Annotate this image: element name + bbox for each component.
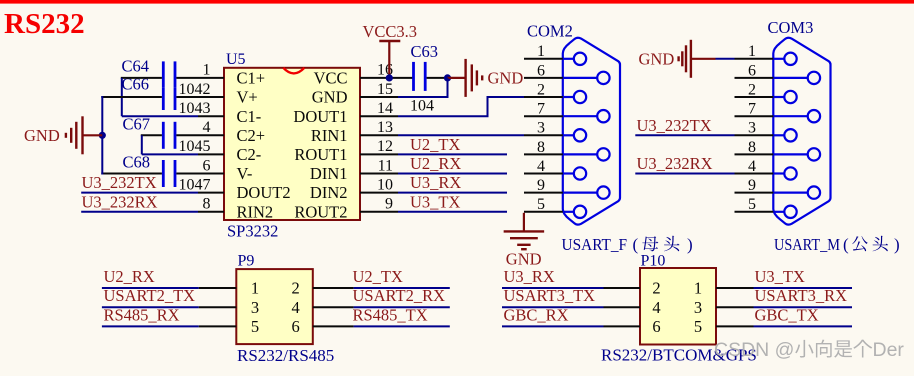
wire RIN1 to COM2 pin3 bbox=[398, 134, 524, 136]
svg-text:C2+: C2+ bbox=[237, 126, 266, 145]
wire net GBC_RX bbox=[502, 325, 604, 327]
COM3 pin 5 contact bbox=[773, 206, 796, 218]
connector COM3 body bbox=[773, 38, 830, 225]
pin stub pin3 bbox=[198, 115, 224, 117]
wire U3_232RX to COM3 pin4 bbox=[635, 173, 734, 175]
svg-text:3: 3 bbox=[251, 298, 259, 317]
svg-text:2: 2 bbox=[748, 81, 756, 98]
COM3 pin stub 5 bbox=[735, 211, 774, 213]
wire GND rail to C68 left plate bbox=[101, 173, 162, 175]
COM2 pin 2 contact bbox=[563, 91, 586, 103]
svg-text:U2_TX: U2_TX bbox=[410, 135, 460, 154]
P10 right pin stub row 2 bbox=[716, 306, 754, 308]
svg-text:5: 5 bbox=[748, 196, 756, 213]
capacitor C68 bbox=[163, 160, 175, 187]
svg-text:VCC: VCC bbox=[314, 69, 348, 88]
pin stub U5 pin15 bbox=[360, 96, 398, 98]
wire net U3_TX bbox=[754, 287, 853, 289]
svg-text:7: 7 bbox=[748, 101, 756, 118]
wire net RS485_TX bbox=[354, 325, 450, 327]
svg-text:9: 9 bbox=[537, 177, 545, 194]
wire C67 right plate to chip pin4 bbox=[176, 134, 224, 136]
COM3 pin 2 contact bbox=[773, 91, 796, 103]
svg-text:3: 3 bbox=[537, 120, 545, 137]
svg-text:ROUT2: ROUT2 bbox=[294, 202, 347, 221]
svg-text:104: 104 bbox=[410, 98, 434, 115]
COM2 pin stub 8 bbox=[524, 153, 563, 155]
wire net U3_TX bbox=[398, 211, 507, 213]
svg-text:1042: 1042 bbox=[179, 81, 211, 98]
svg-text:4: 4 bbox=[748, 158, 756, 175]
COM3 pin 1 contact bbox=[773, 53, 796, 65]
COM3 pin 8 contact bbox=[773, 148, 820, 160]
COM2 pin 9 contact bbox=[563, 186, 610, 198]
svg-text:6: 6 bbox=[748, 62, 756, 79]
pin stub U5 pin12 bbox=[360, 153, 398, 155]
ground symbol COM3 pin1 bbox=[679, 40, 735, 78]
COM2 pin stub 6 bbox=[524, 77, 563, 79]
svg-text:(: ( bbox=[843, 235, 849, 254]
svg-text:SP3232: SP3232 bbox=[227, 222, 278, 241]
svg-text:GBC_RX: GBC_RX bbox=[504, 305, 569, 324]
svg-text:U3_TX: U3_TX bbox=[755, 267, 805, 286]
svg-text:9: 9 bbox=[748, 177, 756, 194]
COM2 pin stub 4 bbox=[524, 173, 563, 175]
svg-text:12: 12 bbox=[377, 138, 393, 155]
svg-text:U2_TX: U2_TX bbox=[353, 267, 403, 286]
svg-text:4: 4 bbox=[203, 119, 211, 136]
svg-text:ROUT1: ROUT1 bbox=[294, 145, 347, 164]
svg-text:4: 4 bbox=[652, 298, 660, 317]
svg-text:(: ( bbox=[633, 235, 639, 254]
svg-text:5: 5 bbox=[251, 317, 259, 336]
COM3 pin 9 contact bbox=[773, 186, 820, 198]
COM3 pin stub 4 bbox=[735, 173, 774, 175]
svg-text:U3_RX: U3_RX bbox=[504, 267, 555, 286]
watermark CSDN bbox=[714, 339, 904, 361]
svg-text:U5: U5 bbox=[226, 51, 246, 68]
svg-text:VCC3.3: VCC3.3 bbox=[363, 22, 418, 41]
pin stub U5 pin10 bbox=[360, 192, 398, 194]
svg-text:COM2: COM2 bbox=[527, 22, 573, 41]
svg-text:1: 1 bbox=[748, 43, 756, 60]
P10 left pin stub row 1 bbox=[604, 287, 641, 289]
wire junction to ground bbox=[448, 77, 465, 79]
svg-text:1043: 1043 bbox=[179, 100, 211, 117]
svg-text:U3_232TX: U3_232TX bbox=[637, 116, 712, 135]
svg-text:GBC_TX: GBC_TX bbox=[755, 305, 819, 324]
COM2 pin 4 contact bbox=[563, 167, 586, 179]
svg-text:V-: V- bbox=[237, 164, 253, 183]
COM2 pin 1 contact bbox=[563, 53, 586, 65]
svg-text:RIN1: RIN1 bbox=[311, 126, 348, 145]
COM2 pin 5 contact bbox=[563, 206, 586, 218]
svg-text:C1+: C1+ bbox=[237, 69, 266, 88]
wire pin15 to junction bbox=[398, 78, 448, 97]
wire C1- row to chip pin3 bbox=[122, 115, 198, 117]
svg-text:USART_F: USART_F bbox=[562, 235, 628, 254]
svg-text:DOUT2: DOUT2 bbox=[237, 183, 291, 202]
svg-text:COM3: COM3 bbox=[768, 18, 814, 37]
svg-text:RS485_TX: RS485_TX bbox=[353, 305, 428, 324]
pin stub pin8 bbox=[198, 211, 224, 213]
svg-text:): ) bbox=[894, 235, 900, 254]
svg-text:P9: P9 bbox=[238, 253, 255, 270]
COM2 pin stub 1 bbox=[524, 58, 563, 60]
connector COM2 body bbox=[563, 38, 620, 225]
svg-text:1: 1 bbox=[251, 279, 259, 298]
capacitor C67 bbox=[163, 122, 175, 149]
P9 right pin stub row 2 bbox=[313, 306, 354, 308]
svg-text:2: 2 bbox=[291, 279, 299, 298]
svg-text:U2_RX: U2_RX bbox=[104, 267, 155, 286]
svg-text:DOUT1: DOUT1 bbox=[293, 107, 347, 126]
COM2 pin 8 contact bbox=[563, 148, 610, 160]
svg-text:USART2_TX: USART2_TX bbox=[104, 286, 196, 305]
P9 right pin stub row 3 bbox=[313, 325, 354, 327]
svg-text:GND: GND bbox=[24, 126, 60, 145]
svg-text:GND: GND bbox=[506, 250, 542, 269]
capacitor C66 bbox=[163, 88, 175, 111]
pin stub pin5 bbox=[198, 153, 224, 155]
svg-text:3: 3 bbox=[694, 298, 702, 317]
COM2 pin 7 contact bbox=[563, 110, 610, 122]
wire vertical C64 to C1- row bbox=[121, 78, 123, 116]
wire net USART2_RX bbox=[354, 306, 450, 308]
svg-text:C64: C64 bbox=[122, 56, 150, 75]
COM2 pin stub 2 bbox=[524, 96, 563, 98]
COM2 pin stub 9 bbox=[524, 192, 563, 194]
connector P10 body bbox=[640, 268, 716, 345]
svg-text:C2-: C2- bbox=[237, 145, 262, 164]
svg-text:DIN1: DIN1 bbox=[310, 164, 348, 183]
svg-text:Der: Der bbox=[873, 339, 905, 361]
wire GND rail to C66 left plate bbox=[101, 96, 162, 98]
wire net U2_TX bbox=[398, 153, 507, 155]
ground symbol left bbox=[66, 116, 102, 154]
junction GND rail bbox=[99, 132, 106, 139]
svg-text:8: 8 bbox=[537, 139, 545, 156]
svg-text:5: 5 bbox=[537, 196, 545, 213]
wire net RS485_RX bbox=[102, 325, 199, 327]
junction VCC pin16 bbox=[386, 74, 393, 81]
pin stub pin7 bbox=[198, 192, 224, 194]
svg-text:10: 10 bbox=[377, 176, 393, 193]
value USART_M(公头) bbox=[774, 235, 900, 254]
COM2 pin stub 5 bbox=[524, 211, 563, 213]
wire C63 to GND junction bbox=[427, 77, 448, 79]
P10 left pin stub row 2 bbox=[604, 306, 641, 308]
svg-text:U3_TX: U3_TX bbox=[410, 192, 460, 211]
svg-text:6: 6 bbox=[537, 62, 545, 79]
svg-text:DIN2: DIN2 bbox=[310, 183, 348, 202]
svg-text:RS232/RS485: RS232/RS485 bbox=[237, 346, 334, 365]
wire DOUT1 to COM2 pin2 bbox=[398, 97, 524, 116]
COM3 pin 4 contact bbox=[773, 167, 796, 179]
wire C68 right plate to chip pin6 bbox=[176, 173, 224, 175]
capacitor C64 bbox=[163, 61, 175, 87]
COM2 pin 6 contact bbox=[563, 72, 610, 84]
COM3 pin stub 2 bbox=[735, 96, 774, 98]
wire net USART3_TX bbox=[502, 306, 604, 308]
P10 right pin stub row 1 bbox=[716, 287, 754, 289]
P9 left pin stub row 2 bbox=[199, 306, 237, 308]
capacitor C63 bbox=[414, 62, 426, 91]
svg-text:2: 2 bbox=[537, 81, 545, 98]
wire net U2_RX bbox=[102, 287, 199, 289]
wire C2- row to pin stub bbox=[142, 153, 198, 155]
svg-text:USART3_TX: USART3_TX bbox=[504, 286, 596, 305]
svg-text:C63: C63 bbox=[411, 42, 439, 61]
wire net U3_RX bbox=[398, 192, 507, 194]
wire net U2_RX bbox=[398, 173, 507, 175]
wire net U3_RX bbox=[502, 287, 604, 289]
svg-text:9: 9 bbox=[385, 196, 393, 213]
COM3 pin 3 contact bbox=[773, 129, 796, 141]
P10 right pin stub row 3 bbox=[716, 325, 754, 327]
wire C64 left plate to corner bbox=[121, 77, 162, 79]
svg-text:U3_232RX: U3_232RX bbox=[82, 192, 158, 211]
svg-text:USART3_RX: USART3_RX bbox=[755, 286, 848, 305]
svg-text:1: 1 bbox=[537, 43, 545, 60]
svg-text:U2_RX: U2_RX bbox=[410, 154, 461, 173]
svg-text:13: 13 bbox=[377, 119, 393, 136]
COM2 pin stub 3 bbox=[524, 134, 563, 136]
connector P9 body bbox=[236, 269, 312, 344]
svg-text:15: 15 bbox=[377, 81, 393, 98]
junction C63/GND bbox=[444, 74, 451, 81]
svg-text:USART2_RX: USART2_RX bbox=[353, 286, 446, 305]
svg-text:1045: 1045 bbox=[179, 138, 211, 155]
wire C66 right plate to chip pin2 bbox=[176, 96, 224, 98]
P9 left pin stub row 3 bbox=[199, 325, 237, 327]
pin stub U5 pin11 bbox=[360, 173, 398, 175]
COM3 pin stub 8 bbox=[735, 153, 774, 155]
IC U5 body (SP3232) bbox=[224, 68, 360, 220]
svg-text:5: 5 bbox=[694, 317, 702, 336]
wire net GBC_TX bbox=[754, 325, 853, 327]
COM3 pin 6 contact bbox=[773, 72, 820, 84]
svg-text:): ) bbox=[687, 235, 693, 254]
wire pin16 to C63 bbox=[360, 77, 413, 79]
svg-text:4: 4 bbox=[537, 158, 545, 175]
svg-text:6: 6 bbox=[291, 317, 299, 336]
value USART_F(母头) bbox=[562, 235, 693, 254]
ground symbol below COM2 bbox=[504, 231, 545, 249]
wire corner to C67 left plate bbox=[141, 134, 162, 136]
COM2 pin 3 contact bbox=[563, 129, 586, 141]
wire pin1 to C64 right plate bbox=[176, 77, 224, 79]
COM3 pin stub 9 bbox=[735, 192, 774, 194]
wire net U2_TX bbox=[354, 287, 450, 289]
svg-text:GND: GND bbox=[312, 88, 348, 107]
svg-text:14: 14 bbox=[377, 100, 393, 117]
svg-text:3: 3 bbox=[748, 120, 756, 137]
COM2 pin stub 7 bbox=[524, 115, 563, 117]
P9 left pin stub row 1 bbox=[199, 287, 237, 289]
svg-text:GND: GND bbox=[639, 49, 675, 68]
svg-text:RIN2: RIN2 bbox=[237, 202, 274, 221]
wire vertical C67 to C2- row bbox=[141, 135, 143, 154]
wire U3_232TX to COM3 pin3 bbox=[635, 134, 734, 136]
svg-text:U3_232TX: U3_232TX bbox=[82, 173, 157, 192]
top red border bar bbox=[0, 0, 914, 4]
COM3 pin stub 7 bbox=[735, 115, 774, 117]
svg-text:V+: V+ bbox=[237, 88, 258, 107]
wire COM2 pin5 to ground bbox=[523, 213, 525, 231]
pin stub U5 pin13 bbox=[360, 134, 398, 136]
svg-text:CSDN @: CSDN @ bbox=[714, 339, 794, 361]
pin stub U5 pin14 bbox=[360, 115, 398, 117]
GND vertical rail bbox=[101, 96, 103, 175]
COM3 pin 7 contact bbox=[773, 110, 820, 122]
svg-text:P10: P10 bbox=[641, 253, 666, 270]
wire net USART3_RX bbox=[754, 306, 853, 308]
svg-text:1: 1 bbox=[203, 62, 211, 79]
svg-text:U3_RX: U3_RX bbox=[410, 173, 461, 192]
svg-text:RS485_RX: RS485_RX bbox=[104, 305, 180, 324]
svg-text:GND: GND bbox=[488, 68, 524, 87]
svg-text:U3_232RX: U3_232RX bbox=[637, 154, 713, 173]
svg-text:4: 4 bbox=[291, 298, 299, 317]
svg-text:RS232: RS232 bbox=[4, 8, 85, 40]
svg-text:7: 7 bbox=[537, 101, 545, 118]
svg-text:6: 6 bbox=[203, 157, 211, 174]
svg-text:1047: 1047 bbox=[179, 176, 211, 193]
svg-text:USART_M: USART_M bbox=[774, 235, 840, 254]
COM3 pin stub 3 bbox=[735, 134, 774, 136]
svg-text:6: 6 bbox=[652, 317, 660, 336]
svg-text:C1-: C1- bbox=[237, 107, 262, 126]
COM3 pin stub 1 bbox=[735, 58, 774, 60]
P9 right pin stub row 1 bbox=[313, 287, 354, 289]
svg-text:8: 8 bbox=[203, 196, 211, 213]
svg-text:8: 8 bbox=[748, 139, 756, 156]
svg-text:11: 11 bbox=[378, 157, 393, 174]
wire net USART2_TX bbox=[102, 306, 199, 308]
wire U3_232TX net bbox=[81, 192, 198, 194]
pin stub U5 pin9 bbox=[360, 211, 398, 213]
svg-text:2: 2 bbox=[652, 279, 660, 298]
svg-text:1: 1 bbox=[694, 279, 702, 298]
ground symbol right of C63 bbox=[466, 59, 483, 97]
P10 left pin stub row 3 bbox=[604, 325, 641, 327]
COM3 pin stub 6 bbox=[735, 77, 774, 79]
wire U3_232RX net bbox=[81, 211, 198, 213]
power VCC3.3 symbol bbox=[379, 41, 400, 78]
